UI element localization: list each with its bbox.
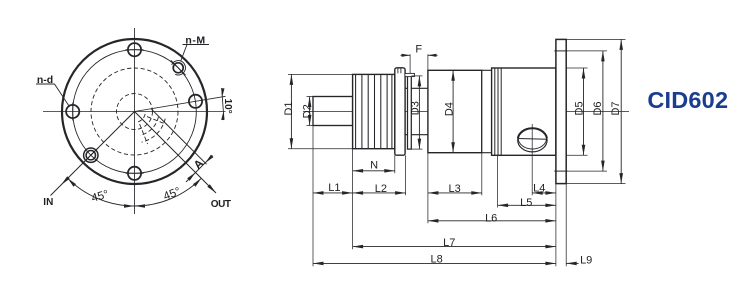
svg-text:OUT: OUT: [211, 199, 231, 210]
svg-text:D6: D6: [592, 101, 604, 115]
svg-text:n-d: n-d: [37, 74, 53, 86]
svg-text:L7: L7: [443, 237, 455, 249]
svg-text:L4: L4: [533, 183, 545, 195]
svg-text:D7: D7: [610, 101, 622, 115]
svg-text:D5: D5: [574, 101, 586, 115]
svg-text:n-M: n-M: [185, 34, 205, 46]
svg-text:L8: L8: [430, 254, 442, 266]
svg-text:F: F: [415, 44, 422, 56]
svg-text:L3: L3: [448, 183, 460, 195]
svg-text:L2: L2: [375, 183, 387, 195]
svg-text:D2: D2: [302, 104, 314, 118]
svg-text:D4: D4: [444, 102, 456, 116]
svg-text:D3: D3: [410, 101, 422, 115]
svg-text:L9: L9: [580, 255, 592, 267]
svg-text:N: N: [370, 160, 378, 172]
svg-text:L1: L1: [328, 182, 340, 194]
svg-text:10°: 10°: [222, 99, 233, 114]
svg-text:IN: IN: [43, 197, 53, 208]
svg-text:D1: D1: [283, 101, 295, 115]
svg-text:CID602: CID602: [647, 87, 728, 113]
svg-text:L5: L5: [520, 197, 532, 209]
svg-text:L6: L6: [485, 213, 497, 225]
